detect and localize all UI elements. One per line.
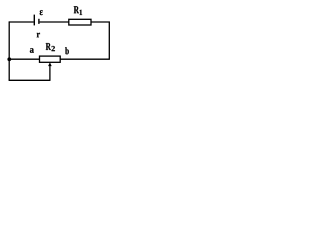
resistor R1 box [69,19,91,25]
wire battery to R1 [40,21,69,23]
label R1 (R) [74,6,79,13]
wire a to junction [9,58,39,60]
rheostat R2 box [40,56,61,62]
label b [65,47,69,54]
label R2 (R) [46,43,51,50]
wire left vertical [8,21,10,80]
junction dot [7,57,11,61]
label r [37,33,40,38]
label R1 subscript 1 [80,10,83,15]
battery cell long plate [33,15,35,26]
wiper arrow head [48,62,52,66]
label R2 subscript 2 [52,46,55,51]
label epsilon [40,10,43,15]
label a [30,48,34,53]
wire R1 right, right vertical, wire to b [60,21,110,59]
battery cell short plate [38,19,40,24]
wire bottom loop and wiper stem [9,66,50,81]
wire top-left horizontal [9,21,34,23]
